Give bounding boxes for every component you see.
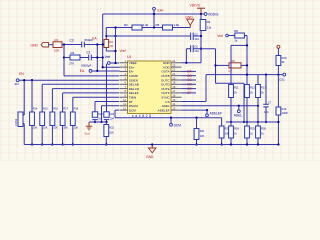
svg-text:C20: C20 — [98, 113, 103, 116]
wire — [243, 83, 245, 122]
resistor R26 — [256, 126, 267, 138]
wire — [101, 106, 103, 122]
svg-text:R18: R18 — [74, 108, 79, 111]
svg-text:R26: R26 — [261, 127, 266, 131]
svg-text:R5: R5 — [156, 23, 160, 27]
svg-text:C1: C1 — [87, 51, 91, 55]
junction — [200, 48, 202, 50]
wire — [51, 126, 53, 145]
svg-text:R15: R15 — [43, 108, 48, 111]
junction — [102, 56, 104, 58]
wire — [277, 48, 279, 55]
svg-text:R3: R3 — [207, 20, 211, 24]
node OA — [187, 70, 192, 74]
resistor R13 — [256, 85, 267, 98]
resistor R9 — [228, 59, 241, 73]
port DCM — [170, 117, 182, 128]
svg-text:R1: R1 — [55, 38, 59, 42]
svg-text:100R: 100R — [282, 112, 288, 115]
junction — [246, 73, 248, 75]
connector JP1 — [14, 79, 26, 144]
svg-text:R16: R16 — [53, 108, 58, 111]
junction — [102, 66, 104, 68]
junction — [277, 73, 279, 75]
junction — [153, 26, 155, 28]
junction — [265, 73, 267, 75]
svg-text:104: 104 — [98, 118, 103, 121]
wire — [51, 89, 53, 112]
svg-text:R4: R4 — [71, 51, 75, 55]
wire — [94, 120, 96, 122]
ground — [146, 145, 156, 160]
wire — [182, 105, 259, 107]
wire — [257, 138, 259, 145]
wire — [106, 120, 108, 122]
port EA+ — [153, 7, 164, 12]
svg-text:VDD/S: VDD/S — [190, 3, 201, 7]
junction — [114, 62, 116, 64]
junction — [277, 121, 279, 123]
svg-text:EA+: EA+ — [158, 9, 164, 13]
capacitor C20 — [92, 112, 103, 121]
junction — [100, 121, 102, 123]
wire — [277, 66, 279, 75]
svg-text:2.4k: 2.4k — [143, 23, 149, 27]
wire — [115, 109, 119, 111]
junction — [41, 143, 43, 145]
wire — [277, 115, 279, 145]
svg-text:10K: 10K — [33, 127, 38, 130]
resistor R24 — [229, 126, 240, 138]
svg-text:R25: R25 — [250, 127, 255, 131]
port Vref — [105, 55, 111, 64]
junction — [72, 143, 74, 145]
junction — [105, 35, 107, 37]
wire — [246, 36, 248, 123]
svg-text:DCM: DCM — [129, 108, 136, 112]
resistor R22 — [104, 122, 115, 146]
wire — [63, 92, 119, 94]
svg-text:C7: C7 — [268, 101, 272, 105]
svg-text:10K: 10K — [63, 127, 68, 130]
wire — [182, 70, 197, 72]
wire — [102, 105, 120, 107]
junction — [185, 62, 187, 64]
svg-text:560pF: 560pF — [85, 38, 94, 42]
wire — [95, 101, 119, 103]
wire — [246, 138, 248, 145]
resistor R21 — [194, 117, 205, 146]
port EA- — [80, 69, 92, 73]
wire — [24, 144, 278, 146]
svg-text:4.7: 4.7 — [228, 69, 232, 73]
wire — [103, 66, 120, 68]
wire — [105, 48, 107, 52]
resistor R1 — [53, 38, 62, 53]
wire — [216, 82, 245, 84]
wire — [62, 93, 64, 112]
wire — [72, 126, 74, 145]
capacitor C21 — [104, 112, 115, 121]
wire — [64, 75, 119, 77]
wire — [230, 138, 232, 145]
wire — [153, 10, 155, 27]
svg-text:1.6k: 1.6k — [174, 23, 180, 27]
resistor R18 — [70, 108, 78, 130]
resistor R17 — [60, 108, 68, 130]
wire — [41, 126, 43, 145]
wire — [265, 107, 267, 122]
svg-text:1k: 1k — [234, 39, 238, 43]
wire — [91, 57, 102, 59]
node Vref — [120, 49, 126, 53]
resistor R14 — [30, 108, 38, 130]
wire — [241, 64, 247, 66]
capacitor C5 — [191, 33, 200, 41]
wire — [103, 13, 201, 15]
node Vref — [217, 34, 228, 38]
wire — [230, 122, 232, 126]
wire — [49, 44, 54, 46]
wire — [257, 122, 259, 126]
junction — [200, 35, 202, 37]
port VDD/S — [202, 12, 219, 16]
wire — [94, 102, 96, 112]
port GND — [31, 42, 49, 47]
svg-text:R22: R22 — [109, 127, 114, 130]
svg-text:R10: R10 — [282, 56, 287, 60]
svg-text:10K: 10K — [74, 127, 79, 130]
wire — [62, 126, 64, 145]
wire — [19, 79, 119, 81]
node OD — [187, 83, 192, 87]
svg-text:R12: R12 — [250, 86, 255, 90]
wire — [52, 88, 119, 90]
junction — [257, 105, 259, 107]
svg-text:GND: GND — [31, 43, 39, 47]
svg-text:DCM: DCM — [174, 124, 182, 128]
wire — [182, 92, 197, 94]
svg-text:1M: 1M — [109, 44, 114, 48]
port ADEL — [234, 105, 243, 118]
svg-text:Vref: Vref — [217, 34, 223, 38]
port — [277, 45, 280, 48]
svg-text:10K: 10K — [53, 127, 58, 130]
svg-text:Gnd: Gnd — [85, 132, 90, 136]
port ADELEF — [206, 109, 222, 117]
wire — [92, 70, 120, 72]
node OB — [187, 74, 192, 78]
wire — [186, 48, 190, 50]
svg-text:R24: R24 — [234, 127, 239, 131]
wire — [246, 98, 248, 123]
resistor R2 — [124, 23, 149, 30]
wire — [115, 117, 222, 119]
wire — [182, 88, 197, 90]
svg-text:OF: OF — [187, 91, 191, 95]
resistor R19 — [276, 107, 288, 115]
junction — [153, 13, 155, 15]
svg-text:ADELEF: ADELEF — [158, 108, 170, 112]
junction — [63, 43, 65, 45]
resistor R3 — [200, 20, 212, 31]
junction — [94, 121, 96, 123]
wire — [244, 35, 247, 37]
wire — [230, 45, 232, 84]
port EN — [15, 72, 25, 86]
wire — [182, 109, 208, 111]
node OF — [187, 91, 191, 95]
wire — [106, 27, 190, 29]
wire — [42, 83, 119, 85]
wire — [231, 44, 247, 46]
wire — [31, 126, 33, 145]
wire — [182, 62, 202, 64]
svg-text:10K: 10K — [200, 135, 205, 138]
svg-text:C3: C3 — [70, 38, 74, 42]
svg-text:104: 104 — [194, 49, 199, 53]
svg-text:EA-: EA- — [80, 69, 85, 73]
wire — [193, 35, 201, 37]
wire — [105, 28, 107, 40]
ground — [185, 15, 194, 27]
junction — [257, 121, 259, 123]
junction — [246, 64, 248, 66]
resistor R10 — [276, 56, 287, 66]
wire — [277, 75, 279, 107]
svg-text:21k: 21k — [207, 25, 212, 29]
capacitor C7 — [263, 101, 271, 114]
svg-text:R8: R8 — [234, 29, 238, 33]
svg-text:104: 104 — [110, 118, 115, 121]
svg-text:ADEL: ADEL — [234, 113, 243, 117]
wire — [228, 35, 235, 37]
svg-text:CON2: CON2 — [14, 118, 18, 126]
svg-text:VDD/S: VDD/S — [208, 12, 219, 16]
svg-text:EN: EN — [19, 72, 24, 76]
junction — [200, 13, 202, 15]
junction — [114, 26, 116, 28]
svg-text:R17: R17 — [63, 108, 68, 111]
vertical wire — [96, 45, 98, 72]
wire — [206, 74, 283, 76]
wire — [106, 64, 108, 112]
resistor R15 — [40, 108, 48, 130]
resistor R6 — [104, 40, 114, 48]
junction — [114, 50, 116, 52]
junction — [246, 143, 248, 145]
svg-text:R21: R21 — [200, 130, 205, 133]
wire — [257, 75, 259, 85]
svg-text:R11: R11 — [234, 86, 239, 90]
junction — [230, 143, 232, 145]
wire — [193, 48, 215, 50]
node OC — [187, 78, 192, 82]
wire — [106, 35, 190, 37]
wire — [110, 62, 119, 64]
junction — [230, 121, 232, 123]
wire — [205, 75, 207, 102]
junction — [96, 56, 98, 58]
wire — [182, 83, 197, 85]
svg-text:Vref: Vref — [120, 49, 126, 53]
wire — [31, 80, 33, 112]
wire — [72, 97, 74, 112]
junction — [61, 143, 63, 145]
junction — [265, 121, 267, 123]
capacitor C3 — [70, 38, 94, 47]
wire — [41, 84, 43, 112]
wire — [216, 64, 230, 66]
wire — [230, 98, 232, 123]
svg-text:C21: C21 — [110, 113, 115, 116]
junction — [51, 143, 53, 145]
capacitor C1 — [81, 51, 91, 68]
wire — [84, 44, 102, 46]
wire — [226, 121, 278, 123]
wire — [63, 45, 65, 76]
wire — [182, 79, 197, 81]
wire — [185, 49, 187, 63]
wire — [62, 44, 82, 46]
junction — [243, 121, 245, 123]
resistor R16 — [50, 108, 58, 130]
svg-text:10K: 10K — [109, 131, 114, 134]
junction — [246, 44, 248, 46]
svg-text:5600pF: 5600pF — [81, 63, 91, 67]
svg-text:C6: C6 — [194, 45, 198, 49]
wire — [200, 14, 202, 63]
resistor R5 — [156, 23, 180, 30]
wire — [215, 49, 217, 84]
resistor R12 — [245, 85, 256, 98]
resistor R11 — [229, 85, 240, 98]
vertical wire — [115, 28, 117, 64]
wire — [265, 75, 267, 105]
svg-text:GND: GND — [146, 155, 154, 159]
wire — [182, 75, 197, 77]
svg-text:Vref: Vref — [105, 55, 111, 59]
capacitor C6 — [191, 45, 200, 53]
junction — [105, 121, 107, 123]
wire — [114, 110, 116, 118]
svg-text:GND: GND — [185, 15, 193, 19]
wire — [106, 50, 115, 52]
wire — [102, 14, 104, 67]
svg-text:sa4828: sa4828 — [132, 114, 151, 118]
resistor R23 — [219, 118, 230, 146]
junction — [114, 35, 116, 37]
svg-text:CS2: CS2 — [279, 77, 285, 81]
svg-text:R14: R14 — [33, 108, 38, 111]
junction — [246, 121, 248, 123]
wire — [64, 57, 70, 59]
resistor R25 — [245, 126, 256, 138]
junction — [277, 143, 279, 145]
wire — [257, 98, 259, 123]
svg-text:ADELEF: ADELEF — [210, 112, 222, 116]
svg-text:C5: C5 — [194, 33, 198, 37]
resistor R8 — [234, 29, 244, 42]
svg-text:R2: R2 — [124, 23, 128, 27]
svg-text:EN: EN — [15, 82, 19, 86]
junction — [31, 143, 33, 145]
svg-text:U1: U1 — [127, 55, 132, 59]
svg-text:104: 104 — [194, 37, 199, 41]
junction — [151, 143, 153, 145]
junction — [102, 43, 104, 45]
wire — [80, 57, 89, 59]
port CS2 — [279, 73, 286, 81]
wire — [73, 96, 119, 98]
junction — [214, 64, 216, 66]
junction — [257, 143, 259, 145]
svg-text:R19: R19 — [282, 107, 287, 111]
svg-text:R9: R9 — [231, 59, 235, 63]
node EA- — [92, 37, 97, 41]
wire — [182, 101, 207, 103]
power VDD/S — [190, 3, 206, 14]
junction — [96, 43, 98, 45]
junction — [31, 79, 33, 81]
node OE — [187, 87, 192, 91]
svg-text:10K: 10K — [54, 49, 59, 53]
wire — [246, 122, 248, 126]
svg-text:10K: 10K — [43, 127, 48, 130]
ground — [85, 122, 93, 136]
svg-text:27K: 27K — [69, 62, 74, 66]
junction — [96, 70, 98, 72]
wire — [89, 121, 107, 123]
resistor R4 — [69, 51, 80, 66]
op-amp U1 — [120, 55, 182, 118]
junction — [63, 56, 65, 58]
